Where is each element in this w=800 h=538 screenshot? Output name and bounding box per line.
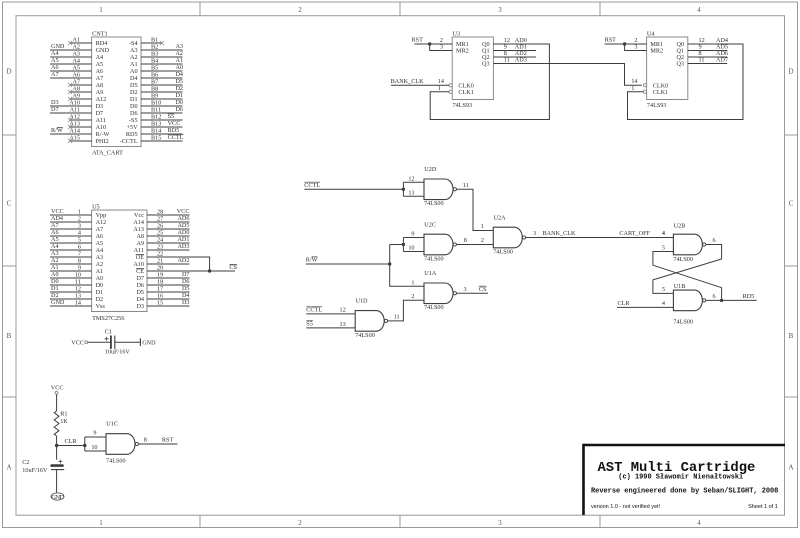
wire CNT1 pin B12 net S5 (141, 119, 183, 121)
svg-text:C1: C1 (105, 329, 112, 336)
svg-text:1: 1 (99, 519, 103, 527)
svg-text:11: 11 (699, 57, 705, 64)
svg-text:4: 4 (78, 230, 81, 237)
wire U5 pin 26 net AD5 (147, 228, 190, 230)
svg-text:A0: A0 (51, 271, 59, 278)
wire U5 pin 14 net GND (50, 305, 92, 307)
svg-text:A7: A7 (51, 222, 59, 229)
svg-text:A4: A4 (51, 50, 59, 57)
svg-text:version 1.0 - not verified yet: version 1.0 - not verified yet! (591, 504, 661, 510)
svg-text:8: 8 (144, 437, 147, 444)
ground terminal GND (C1) (139, 338, 141, 346)
svg-text:11: 11 (504, 57, 510, 64)
clock bubbles U3 (449, 84, 452, 87)
wire U4 Q0 net AD4 and feedback to CLK1 (628, 44, 744, 120)
svg-text:(c) 1990 Sławomir Nienałtowski: (c) 1990 Sławomir Nienałtowski (618, 474, 743, 482)
junction RST U3 (428, 42, 431, 45)
svg-text:A5: A5 (96, 61, 104, 68)
svg-text:A5: A5 (96, 240, 104, 247)
wire CNT1 pin A13 stub (no connect) (70, 126, 92, 128)
svg-text:4: 4 (662, 230, 665, 237)
svg-text:2: 2 (298, 6, 302, 14)
svg-text:7: 7 (78, 251, 81, 258)
wire CNT1 pin B8 net D2 (141, 91, 183, 93)
wire CNT1 pin A1 stub (no connect) (70, 42, 92, 44)
svg-text:A1: A1 (96, 268, 104, 275)
svg-text:A1: A1 (175, 57, 183, 64)
svg-text:R/W: R/W (306, 257, 318, 264)
svg-text:B: B (789, 332, 794, 340)
wire S5 to U1D input 13 (306, 327, 355, 329)
wire CNT1 pin A14 net R/W (50, 133, 92, 135)
svg-text:D1: D1 (130, 96, 138, 103)
svg-text:CCTL: CCTL (306, 307, 322, 314)
svg-text:12: 12 (75, 286, 81, 293)
svg-text:74LS00: 74LS00 (493, 249, 513, 256)
svg-text:9: 9 (93, 430, 96, 437)
wire C1 to GND (115, 341, 141, 343)
svg-text:D7: D7 (96, 110, 104, 117)
svg-text:Sheet 1 of 1: Sheet 1 of 1 (748, 504, 778, 510)
svg-text:B3: B3 (151, 51, 158, 58)
wire CNT1 pin B11 net D6 (141, 112, 183, 114)
svg-text:1: 1 (99, 6, 103, 14)
svg-text:CLR: CLR (618, 300, 631, 307)
wire U5 pin 25 net AD0 (147, 235, 190, 237)
svg-text:CART_OFF: CART_OFF (619, 230, 650, 237)
svg-text:A3: A3 (72, 51, 80, 58)
svg-text:5: 5 (662, 286, 665, 293)
svg-text:AD6: AD6 (177, 215, 189, 222)
wire U5 pin 17 net D5 (147, 291, 190, 293)
wire U5 pin 13 net D2 (50, 298, 92, 300)
svg-text:6: 6 (78, 244, 81, 251)
svg-text:A5: A5 (51, 57, 59, 64)
svg-text:A11: A11 (70, 107, 80, 114)
svg-text:D0: D0 (130, 103, 138, 110)
wire U4 Q3 net AD7 (688, 63, 727, 65)
svg-text:C: C (789, 200, 794, 208)
svg-text:C: C (7, 200, 12, 208)
wire U5 pin 8 net A2 (50, 263, 92, 265)
svg-text:AD2: AD2 (177, 257, 189, 264)
svg-text:VCC: VCC (168, 120, 181, 127)
wire U5 pin 10 net A0 (50, 277, 92, 279)
svg-text:-S4: -S4 (129, 40, 138, 47)
svg-text:CS: CS (479, 286, 487, 293)
svg-text:D6: D6 (136, 282, 144, 289)
svg-text:27: 27 (157, 216, 163, 223)
capacitor C2 10uF/16V (50, 464, 64, 467)
svg-text:RST: RST (412, 37, 424, 44)
svg-text:A7: A7 (51, 71, 59, 78)
svg-text:D2: D2 (130, 89, 138, 96)
svg-text:A6: A6 (51, 229, 59, 236)
svg-text:VCC: VCC (71, 340, 84, 347)
svg-text:D6: D6 (175, 106, 183, 113)
svg-text:A2: A2 (175, 50, 183, 57)
wire U3 Q0 net AD0 and feedback to CLK1 (430, 44, 549, 120)
svg-text:AD1: AD1 (177, 236, 189, 243)
wire U3 Q3 net AD3 to U4 CLK0 (493, 64, 641, 86)
wire CNT1 pin A4 net A5 (50, 63, 92, 65)
svg-text:BANK_CLK: BANK_CLK (543, 230, 577, 237)
svg-text:D5: D5 (182, 285, 190, 292)
svg-text:B6: B6 (151, 72, 158, 79)
svg-text:1: 1 (411, 279, 414, 286)
svg-text:74LS93: 74LS93 (453, 102, 473, 109)
svg-text:A11: A11 (96, 117, 106, 124)
svg-text:D1: D1 (175, 92, 183, 99)
counter U3 74LS93 (452, 37, 493, 100)
junction RST U4 (623, 42, 626, 45)
svg-text:VCC: VCC (51, 208, 64, 215)
svg-text:A6: A6 (72, 72, 80, 79)
svg-text:U5: U5 (92, 203, 100, 210)
wire U5 pin 12 net D1 (50, 291, 92, 293)
svg-text:OE: OE (136, 254, 144, 261)
svg-text:D3: D3 (51, 99, 59, 106)
svg-text:AD7: AD7 (716, 57, 728, 64)
wire CNT1 pin B5 net A0 (141, 70, 183, 72)
wire U1B output 6 net RD5 (706, 299, 757, 301)
wire U5 pin 21 net AD2 (147, 263, 190, 265)
svg-text:9: 9 (78, 265, 81, 272)
svg-text:74LS00: 74LS00 (424, 304, 444, 311)
svg-text:B11: B11 (151, 107, 161, 114)
svg-text:D0: D0 (96, 282, 104, 289)
wire CLR to U1B input 4 (617, 306, 673, 308)
connector CNT1 (92, 37, 141, 147)
svg-text:A6: A6 (96, 233, 104, 240)
wire U5 pin 28 net VCC (147, 214, 190, 216)
svg-text:CLR: CLR (65, 438, 78, 445)
wire CNT1 pin A8 stub (no connect) (70, 91, 92, 93)
svg-text:D3: D3 (96, 103, 104, 110)
wire CCTL to U1D input 12 (306, 313, 355, 315)
svg-text:D7: D7 (182, 271, 190, 278)
svg-text:D0: D0 (51, 278, 59, 285)
junction CCTL U2D (402, 188, 405, 191)
svg-text:B8: B8 (151, 86, 158, 93)
svg-text:Reverse engineered done by Seb: Reverse engineered done by Seban/SLIGHT,… (591, 488, 778, 496)
svg-text:10uF/16V: 10uF/16V (105, 349, 131, 356)
svg-text:A7: A7 (96, 75, 104, 82)
svg-text:13: 13 (340, 321, 346, 328)
nand gate U1A 74LS00 (424, 283, 453, 304)
svg-text:D7: D7 (136, 275, 144, 282)
svg-text:A10: A10 (96, 124, 107, 131)
nand gate U1C 74LS00 (106, 434, 135, 455)
wire R/W vertical to U2C and U1A (390, 245, 424, 287)
svg-text:Vcc: Vcc (134, 212, 144, 219)
svg-text:8: 8 (78, 258, 81, 265)
wire CNT1 pin A9 stub (no connect) (70, 98, 92, 100)
svg-text:3: 3 (78, 223, 81, 230)
svg-text:74LS00: 74LS00 (424, 255, 444, 262)
svg-text:13: 13 (408, 190, 414, 197)
svg-text:D7: D7 (51, 106, 59, 113)
svg-text:A10: A10 (133, 261, 144, 268)
svg-text:RD5: RD5 (168, 127, 180, 134)
zone tick marks (199, 2, 201, 528)
svg-text:16: 16 (157, 293, 163, 300)
resistor R1 1K (54, 411, 59, 436)
svg-text:D3: D3 (136, 303, 144, 310)
svg-text:D2: D2 (51, 292, 59, 299)
svg-text:B10: B10 (151, 100, 161, 107)
wire U3 Q2 net AD2 (493, 56, 536, 58)
svg-text:A1: A1 (51, 264, 59, 271)
wire U1A output 3 net CS (457, 292, 488, 294)
wire CNT1 pin B14 net RD5 (141, 133, 183, 135)
svg-text:U1D: U1D (356, 298, 369, 305)
svg-text:B1: B1 (151, 37, 158, 44)
svg-text:A12: A12 (96, 219, 107, 226)
svg-text:A9: A9 (72, 93, 80, 100)
svg-text:15: 15 (157, 300, 163, 307)
svg-text:CCTL: CCTL (304, 182, 320, 189)
svg-text:MR2: MR2 (456, 48, 469, 55)
svg-text:D0: D0 (175, 99, 183, 106)
svg-text:U4: U4 (647, 30, 655, 37)
svg-text:D2: D2 (96, 296, 104, 303)
svg-text:2: 2 (411, 293, 414, 300)
junction U1C inputs (83, 444, 86, 447)
svg-text:24: 24 (157, 237, 163, 244)
svg-text:B15: B15 (151, 135, 161, 142)
svg-text:A: A (788, 464, 793, 472)
wire U5 pin 11 net D0 (50, 284, 92, 286)
svg-text:VCC: VCC (177, 208, 190, 215)
svg-text:Q3: Q3 (676, 61, 684, 68)
svg-text:3: 3 (533, 230, 536, 237)
polarity mark C2 (58, 460, 62, 464)
wire U5 pin 5 net A5 (50, 242, 92, 244)
svg-text:A13: A13 (133, 226, 144, 233)
wire CNT1 pin A3 net A4 (50, 56, 92, 58)
svg-text:74LS00: 74LS00 (673, 318, 693, 325)
svg-text:74LS00: 74LS00 (106, 457, 126, 464)
svg-text:A4: A4 (51, 243, 59, 250)
svg-text:A3: A3 (96, 254, 104, 261)
wire RST to U4 MR1/MR2 (605, 43, 647, 45)
svg-text:AD3: AD3 (177, 243, 189, 250)
svg-text:Vpp: Vpp (96, 212, 107, 219)
svg-text:6: 6 (713, 237, 716, 244)
svg-text:23: 23 (157, 244, 163, 251)
svg-text:B12: B12 (151, 114, 161, 121)
svg-text:12: 12 (340, 307, 346, 314)
svg-text:S5: S5 (306, 321, 313, 328)
svg-text:5: 5 (78, 237, 81, 244)
svg-text:A8: A8 (72, 86, 80, 93)
svg-text:Q3: Q3 (482, 61, 490, 68)
svg-text:A12: A12 (96, 96, 107, 103)
wire U5 pin 6 net A4 (50, 249, 92, 251)
svg-text:A3: A3 (175, 43, 183, 50)
wire U5 pin 23 net AD3 (147, 249, 190, 251)
svg-text:74LS93: 74LS93 (647, 102, 667, 109)
wire U5 pin 15 net D3 (147, 305, 190, 307)
svg-text:U2C: U2C (424, 221, 436, 228)
wire R/W from label (306, 263, 390, 265)
wire CNT1 pin B10 net D0 (141, 105, 183, 107)
svg-text:D4: D4 (130, 75, 138, 82)
svg-text:1: 1 (78, 209, 81, 216)
wire U1D output 11 to U1A input 2 (388, 300, 424, 321)
wire CNT1 pin A2 net GND (50, 49, 92, 51)
svg-text:B13: B13 (151, 121, 161, 128)
svg-text:4: 4 (662, 300, 665, 307)
svg-text:3: 3 (464, 286, 467, 293)
svg-text:D1: D1 (51, 285, 59, 292)
svg-text:26: 26 (157, 223, 163, 230)
svg-text:D5: D5 (175, 78, 183, 85)
wire CNT1 pin B1 stub (no connect) (141, 42, 162, 44)
wire U2A output 3 net BANK_CLK / CART_OFF to U2B input 4 (526, 237, 674, 239)
svg-text:A9: A9 (96, 89, 104, 96)
svg-text:3: 3 (634, 44, 637, 51)
wire U5 pin 4 net A6 (50, 235, 92, 237)
svg-text:3: 3 (440, 44, 443, 51)
svg-text:10: 10 (91, 444, 97, 451)
svg-text:R1: R1 (60, 411, 67, 418)
wire U4 Q1 net AD5 (688, 50, 727, 52)
svg-text:B5: B5 (151, 65, 158, 72)
junction RD5 (720, 299, 723, 302)
junction U2C inputs (402, 243, 405, 246)
svg-text:A0: A0 (96, 275, 104, 282)
wire U2D output 11 to U2A input 1 (457, 189, 494, 230)
svg-text:U1A: U1A (424, 270, 437, 277)
svg-text:GND: GND (96, 47, 110, 54)
title block border (584, 444, 786, 447)
svg-text:U1B: U1B (674, 283, 686, 290)
svg-text:Vss: Vss (96, 303, 106, 310)
counter U4 74LS93 (647, 37, 688, 100)
svg-text:3: 3 (498, 519, 502, 527)
wire CLR node to U1C inputs (57, 445, 85, 447)
wire BANK_CLK to U3 CLK0 (391, 84, 449, 86)
svg-text:C2: C2 (22, 459, 29, 466)
junction R/W (388, 262, 391, 265)
svg-text:14: 14 (75, 300, 81, 307)
nand gate U2B 74LS00 (673, 234, 702, 255)
clock bubbles U4 (643, 84, 646, 87)
svg-text:U3: U3 (453, 30, 461, 37)
svg-text:RD5: RD5 (743, 293, 755, 300)
svg-text:10: 10 (75, 272, 81, 279)
svg-text:D: D (788, 68, 793, 76)
svg-text:A4: A4 (72, 58, 80, 65)
svg-text:D4: D4 (136, 296, 144, 303)
wire R1 to CLR node (56, 436, 58, 460)
wire CNT1 pin A15 stub (no connect) (70, 140, 92, 142)
svg-text:A2: A2 (51, 257, 59, 264)
svg-text:D1: D1 (96, 289, 104, 296)
wire CNT1 pin A5 net A6 (50, 70, 92, 72)
svg-text:13: 13 (75, 293, 81, 300)
svg-text:GND: GND (51, 299, 65, 306)
svg-text:RD4: RD4 (96, 40, 108, 47)
nand gate U2C 74LS00 (424, 234, 453, 255)
svg-text:D5: D5 (136, 289, 144, 296)
svg-text:D5: D5 (130, 82, 138, 89)
wire U5 pin 27 net AD6 (147, 221, 190, 223)
svg-text:R/W: R/W (51, 127, 63, 134)
svg-text:RST: RST (162, 437, 174, 444)
svg-text:5: 5 (662, 245, 665, 252)
wire CNT1 pin B4 net A1 (141, 63, 183, 65)
svg-text:U2A: U2A (494, 214, 507, 221)
svg-text:CS: CS (229, 264, 237, 271)
svg-text:CCTL: CCTL (168, 134, 184, 141)
wire R/W branch to U2C inputs 9/10 (390, 244, 404, 246)
polarity mark C1 (105, 337, 109, 341)
svg-text:22: 22 (157, 251, 163, 258)
wire CNT1 pin B15 net CCTL (141, 140, 183, 142)
svg-text:U1C: U1C (106, 420, 118, 427)
svg-text:D2: D2 (175, 85, 183, 92)
svg-text:2: 2 (298, 519, 302, 527)
wire CNT1 pin A7 stub (no connect) (70, 84, 92, 86)
svg-text:A11: A11 (134, 247, 144, 254)
svg-text:12: 12 (408, 175, 414, 182)
svg-text:20: 20 (157, 265, 163, 272)
wire CNT1 pin A10 net D3 (50, 105, 92, 107)
wire CNT1 pin B2 net A3 (141, 49, 183, 51)
svg-text:A0: A0 (175, 64, 183, 71)
svg-text:74LS00: 74LS00 (673, 256, 693, 263)
svg-text:74LS00: 74LS00 (355, 332, 375, 339)
wire U5 pin 1 net VCC (50, 214, 92, 216)
svg-text:AD0: AD0 (177, 229, 189, 236)
svg-text:CNT1: CNT1 (92, 30, 107, 37)
junction CLR node (55, 444, 58, 447)
wire CNT1 pin B7 net D5 (141, 84, 183, 86)
svg-text:A7: A7 (72, 79, 80, 86)
svg-text:A2: A2 (72, 44, 80, 51)
svg-text:10uF/16V: 10uF/16V (22, 467, 48, 474)
junction CS node (208, 269, 211, 272)
svg-text:1: 1 (481, 223, 484, 230)
wire U3 Q1 net AD1 (493, 50, 536, 52)
svg-text:74LS00: 74LS00 (424, 200, 444, 207)
svg-text:GND: GND (142, 340, 156, 347)
svg-text:AD4: AD4 (51, 215, 63, 222)
svg-text:14: 14 (438, 78, 444, 85)
svg-text:A3: A3 (51, 250, 59, 257)
svg-text:PHI2: PHI2 (96, 138, 109, 145)
wire CNT1 pin A12 stub (no connect) (70, 119, 92, 121)
svg-text:A3: A3 (130, 47, 138, 54)
svg-text:17: 17 (157, 286, 163, 293)
svg-text:A9: A9 (136, 240, 144, 247)
svg-text:9: 9 (411, 231, 414, 238)
svg-text:1: 1 (631, 85, 634, 92)
svg-text:AD5: AD5 (177, 222, 189, 229)
svg-text:25: 25 (157, 230, 163, 237)
svg-text:14: 14 (631, 78, 637, 85)
wire VCC to C1 (88, 341, 110, 343)
nand gate U2D 74LS00 (424, 179, 453, 200)
svg-text:21: 21 (157, 258, 163, 265)
svg-text:2: 2 (481, 237, 484, 244)
svg-text:A14: A14 (69, 128, 80, 135)
svg-text:AD3: AD3 (515, 57, 527, 64)
svg-text:-CCTL: -CCTL (120, 138, 138, 145)
